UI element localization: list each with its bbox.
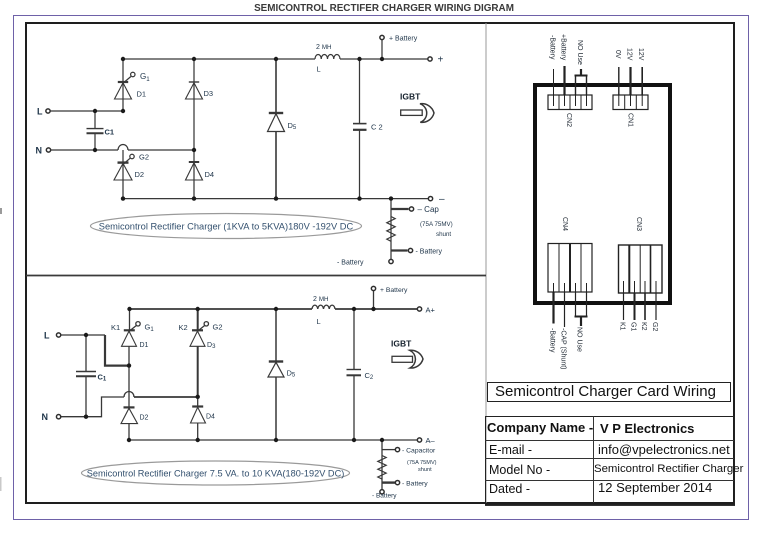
- svg-text:shunt: shunt: [436, 231, 451, 238]
- svg-text:12V: 12V: [637, 48, 644, 61]
- svg-text:C 2: C 2: [371, 123, 383, 132]
- svg-text:shunt: shunt: [418, 467, 432, 473]
- svg-text:C2: C2: [365, 371, 374, 381]
- svg-text:Semicontrol Rectifier Charger: Semicontrol Rectifier Charger 7.5 VA. to…: [87, 469, 345, 479]
- svg-text:L: L: [37, 107, 43, 117]
- svg-text:D1: D1: [140, 342, 149, 349]
- svg-text:K2: K2: [640, 322, 647, 331]
- svg-text:K2: K2: [179, 323, 188, 332]
- svg-text:C1: C1: [105, 128, 115, 137]
- svg-text:D5: D5: [287, 369, 296, 379]
- svg-text:G2: G2: [213, 323, 223, 332]
- svg-text:N: N: [36, 146, 43, 156]
- svg-text:N: N: [42, 412, 49, 422]
- svg-text:+Battery: +Battery: [560, 34, 567, 61]
- svg-text:NO Use: NO Use: [576, 40, 583, 65]
- svg-text:G1: G1: [140, 72, 150, 83]
- svg-text:+ Battery: + Battery: [389, 36, 418, 43]
- svg-text:A+: A+: [426, 306, 436, 315]
- svg-text:D4: D4: [206, 414, 215, 421]
- svg-text:-Battery: -Battery: [549, 328, 556, 353]
- svg-text:–: –: [439, 194, 445, 205]
- svg-text:L: L: [44, 331, 50, 341]
- svg-text:Semicontrol Rectifier Charger: Semicontrol Rectifier Charger (1KVA to 5…: [99, 222, 354, 232]
- svg-text:NO Use: NO Use: [576, 327, 583, 352]
- svg-text:- Battery: - Battery: [337, 260, 364, 267]
- svg-text:2 MH: 2 MH: [316, 44, 331, 51]
- svg-text:CN1: CN1: [627, 113, 634, 127]
- svg-text:G1: G1: [145, 323, 155, 334]
- svg-text:-CAP (Shunt): -CAP (Shunt): [560, 328, 567, 370]
- svg-text:- Battery: - Battery: [416, 249, 443, 256]
- svg-text:2 MH: 2 MH: [313, 296, 328, 303]
- svg-text:G2: G2: [651, 322, 658, 331]
- svg-text:D2: D2: [135, 170, 145, 179]
- svg-text:- Capacitor: - Capacitor: [402, 448, 436, 455]
- svg-text:CN4: CN4: [561, 217, 568, 231]
- svg-text:- Battery: - Battery: [372, 493, 397, 500]
- svg-text:– Cap: – Cap: [418, 205, 440, 214]
- svg-text:D2: D2: [140, 415, 149, 422]
- svg-text:L: L: [317, 65, 321, 74]
- svg-text:D3: D3: [204, 89, 214, 98]
- svg-text:- Battery: - Battery: [402, 481, 428, 488]
- svg-text:-Battery: -Battery: [549, 35, 556, 60]
- svg-text:K1: K1: [111, 323, 120, 332]
- svg-text:+: +: [438, 55, 444, 66]
- svg-text:+ Battery: + Battery: [380, 287, 408, 294]
- svg-text:D3: D3: [207, 342, 216, 350]
- svg-text:K1: K1: [619, 322, 626, 331]
- svg-text:C1: C1: [98, 373, 107, 383]
- svg-text:12V: 12V: [626, 48, 633, 61]
- svg-text:D5: D5: [288, 121, 297, 131]
- svg-text:G1: G1: [630, 322, 637, 331]
- svg-text:CN3: CN3: [635, 217, 642, 231]
- svg-text:CN2: CN2: [565, 113, 572, 127]
- svg-text:L: L: [317, 317, 321, 326]
- svg-text:D1: D1: [137, 90, 147, 99]
- svg-text:(75A 75MV): (75A 75MV): [407, 460, 437, 466]
- svg-text:0V: 0V: [614, 50, 621, 59]
- svg-text:IGBT: IGBT: [400, 92, 421, 102]
- svg-text:D4: D4: [205, 170, 215, 179]
- svg-text:(75A 75MV): (75A 75MV): [420, 221, 453, 228]
- svg-text:G2: G2: [139, 153, 149, 162]
- svg-text:A–: A–: [426, 436, 436, 445]
- svg-text:IGBT: IGBT: [391, 339, 412, 349]
